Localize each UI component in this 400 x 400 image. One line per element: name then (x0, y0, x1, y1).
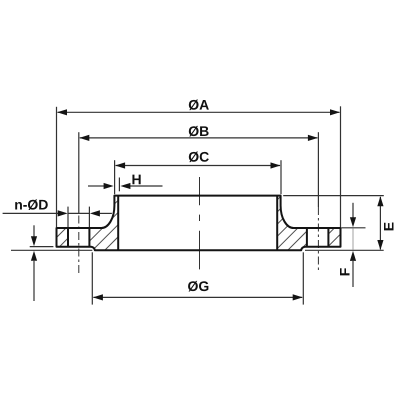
bore line left (117, 196, 119, 251)
extension line hub top, to E dimension (283, 195, 384, 197)
bolt hole right, right edge (327, 228, 329, 247)
bolt hole centerline left (78, 216, 80, 274)
hatching: flange section cut, 45-degree lines (24, 185, 400, 258)
dimension diam G (raised face) (93, 296, 302, 298)
extension line flange left edge (diam A left) (56, 107, 58, 227)
bolt hole left, left edge (67, 228, 69, 247)
bolt hole left, right edge (88, 228, 90, 247)
svg-text:ØC: ØC (188, 149, 209, 165)
extension line bolt hole left edge (n-OD) (67, 207, 69, 228)
part centerline (199, 177, 201, 205)
dimension diam B (80, 137, 318, 139)
extension line H right (bore wall) (118, 178, 120, 192)
svg-text:E: E (380, 222, 396, 231)
svg-text:ØB: ØB (188, 123, 209, 139)
extension line raised face right (diam G right) (302, 252, 304, 304)
extension line raised face left (diam G left) (91, 252, 93, 304)
extension line bolt hole right edge (n-OD) (88, 207, 90, 228)
svg-text:F: F (336, 267, 352, 276)
dimension diam A (58, 111, 340, 113)
bore line right (276, 196, 278, 251)
extension line flange top right, to F dimension (342, 227, 366, 229)
svg-text:ØA: ØA (188, 97, 209, 113)
dimension raised face height (left, unlabeled) (33, 225, 35, 236)
extension line flange bottom left, raised face height dim (30, 246, 54, 248)
extension line hub left (diam C left) (114, 160, 116, 194)
dimension n-diam D (bolt holes) (3, 212, 59, 214)
extension line raised face bottom right, to E/F dimensions (305, 249, 384, 251)
extension line flange right edge (diam A right) (340, 106, 342, 227)
extension line hub right (diam C right) (280, 160, 282, 194)
svg-text:ØG: ØG (188, 278, 210, 294)
dimension diam C (116, 165, 280, 167)
svg-text:H: H (131, 171, 141, 187)
dimension E (overall height) (379, 197, 381, 250)
svg-text:n-ØD: n-ØD (14, 197, 48, 213)
extension line raised face bottom left (11, 249, 92, 251)
dimension F (flange thickness) (352, 203, 354, 218)
flange body outline (57, 196, 341, 251)
extension line bolt circle right (diam B right) (317, 132, 319, 207)
dimension H (hub wall) (88, 185, 104, 187)
extension line bolt circle left (diam B left) (78, 132, 80, 213)
bolt hole centerline right (317, 207, 319, 271)
bolt hole right, left edge (306, 228, 308, 247)
